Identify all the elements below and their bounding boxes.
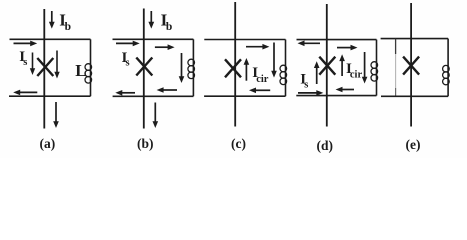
wire: bias line (b) [143, 9, 145, 129]
wire: bottom rail (d) [296, 95, 376, 97]
label (d) [317, 138, 334, 153]
svg-text:cir: cir [350, 70, 363, 81]
current arrow Icir up (c) [244, 58, 250, 81]
wire: loop right branch (a) [90, 39, 92, 96]
wire: bias line (c) [234, 2, 236, 127]
current arrow left, bottom-left of line (b) [115, 90, 135, 96]
current arrow Is up (d) [314, 61, 320, 84]
current arrow down, in loop (b) [179, 53, 185, 83]
wire: bottom rail (b) [113, 95, 194, 97]
current arrow Is (b) [116, 41, 140, 47]
wire: top signal rail (b) [113, 38, 194, 40]
current arrow left, in loop bottom (b) [157, 87, 177, 93]
svg-text:s: s [304, 79, 308, 90]
svg-text:b: b [65, 21, 71, 33]
wire: bias line (d) [326, 4, 328, 127]
wire: bottom rail (e) [381, 95, 448, 97]
current arrow Is (a) [14, 41, 38, 47]
wire: right loop branch (e) [447, 39, 449, 97]
svg-text:(b): (b) [137, 136, 154, 151]
label Icir (d) [346, 61, 362, 80]
josephson junction X (d) [319, 57, 335, 75]
wire: bias line (a) [43, 9, 45, 129]
label L (a) [75, 61, 86, 80]
wire: loop right branch (b) [192, 39, 194, 96]
current arrow Ib (b) [148, 11, 154, 29]
current arrow right, in loop top (c) [246, 44, 269, 50]
current arrow left, in loop bottom (c) [249, 88, 270, 94]
svg-text:b: b [166, 21, 172, 33]
label (e) [406, 137, 421, 152]
svg-text:(a): (a) [40, 136, 56, 151]
current arrow out, bottom-left (a) [13, 90, 37, 96]
label Is (b) [122, 50, 130, 69]
svg-text:L: L [75, 61, 86, 80]
current arrow Ib (a) [49, 11, 55, 29]
wire: bias line (e) [410, 3, 412, 127]
label Ib (a) [59, 10, 71, 33]
wire: bottom rail (a) [9, 95, 91, 97]
wire: top input stub (c) [204, 39, 285, 41]
current arrow down, in right loop (d) [362, 52, 368, 84]
inductor coil (e) [443, 65, 450, 84]
svg-text:cir: cir [256, 74, 269, 85]
current arrow down, left of junction (a) [30, 53, 35, 76]
label Icir (c) [252, 65, 268, 85]
svg-text:(d): (d) [317, 138, 334, 153]
current arrow Icir up (d) [339, 54, 345, 76]
wire: top signal rail (a) [10, 38, 91, 40]
label Is (d) [300, 71, 308, 90]
current arrow down, bottom output (b) [153, 103, 159, 129]
wire: bottom rail (c) [204, 95, 285, 97]
label (c) [231, 136, 246, 151]
wire: loop right branch (c) [285, 40, 287, 97]
svg-text:(e): (e) [406, 137, 421, 152]
inductor coil (b) [188, 59, 195, 78]
label Is (a) [19, 49, 27, 68]
current arrow down, near coil (c) [271, 43, 277, 78]
current arrow down, right of junction (a) [54, 51, 59, 79]
current arrow left, top-left output (d) [298, 41, 321, 47]
svg-text:(c): (c) [231, 136, 246, 151]
current arrow right, in loop top (b) [155, 44, 175, 50]
current arrow right, bottom-left input (d) [298, 90, 323, 96]
inductor L coil (a) [85, 64, 92, 83]
current arrow down, bottom output (a) [53, 102, 59, 128]
inductor coil (c) [280, 65, 287, 84]
svg-text:s: s [126, 57, 130, 68]
label (b) [137, 136, 154, 151]
label Ib (b) [161, 10, 173, 33]
current arrow right, in right loop top (d) [337, 45, 358, 51]
inductor coil (d) [371, 62, 378, 81]
wire: top rail (d) [297, 39, 377, 41]
wire: right loop branch (d) [376, 40, 378, 96]
current arrow left, in right loop bottom (d) [336, 87, 355, 93]
wire: top rail (e) [381, 38, 449, 40]
josephson junction X (c) [225, 59, 241, 77]
wire: left loop branch, faded (e) [395, 39, 397, 97]
josephson junction X (a) [37, 58, 53, 76]
svg-text:s: s [23, 57, 27, 68]
label (a) [40, 136, 56, 151]
josephson junction X (e) [403, 57, 419, 75]
josephson junction X (b) [136, 58, 152, 76]
